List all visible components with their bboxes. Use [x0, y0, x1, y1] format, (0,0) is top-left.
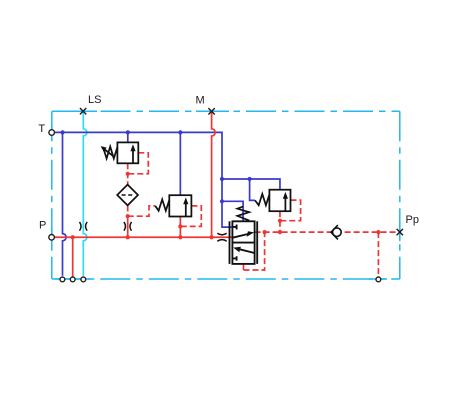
svg-text:Pp: Pp	[406, 214, 419, 226]
svg-text:T: T	[38, 123, 45, 135]
svg-text:LS: LS	[88, 94, 101, 106]
svg-text:P: P	[39, 220, 46, 232]
svg-text:M: M	[196, 95, 205, 107]
